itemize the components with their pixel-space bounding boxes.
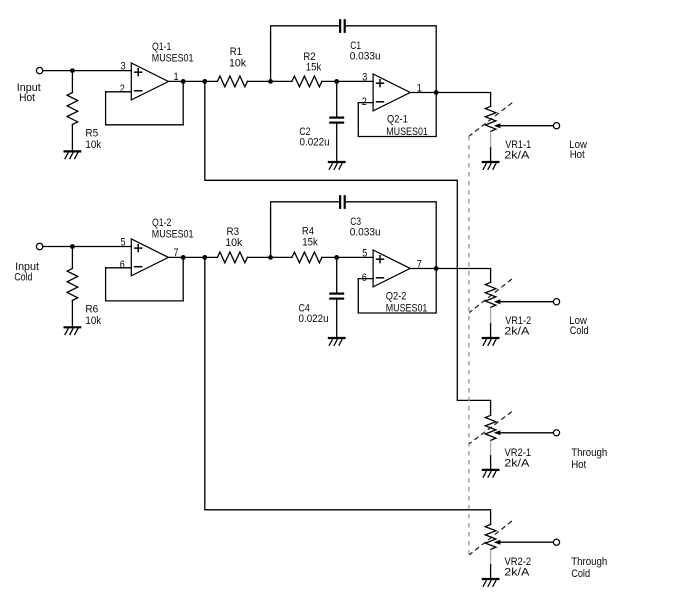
wire Q1-1 pin2 xyxy=(106,91,132,93)
wire C1 branch up-left xyxy=(271,26,340,82)
svg-text:2k/A: 2k/A xyxy=(504,567,530,579)
op-amp Q2-2 MUSES01 xyxy=(373,250,427,314)
ground (VR2-1) xyxy=(482,470,500,477)
potentiometer VR2-2 2k/A xyxy=(485,524,531,578)
svg-text:MUSES01: MUSES01 xyxy=(152,53,194,65)
pin 2 label Q1-1 xyxy=(120,83,125,95)
gang dash diagonal VR2-1 xyxy=(469,412,512,444)
node: through-cold tap xyxy=(202,255,207,260)
wire C3 branch up-left xyxy=(271,202,340,258)
wire Q2-1 pin2 xyxy=(358,102,373,104)
svg-text:R5: R5 xyxy=(85,128,98,140)
svg-text:2: 2 xyxy=(120,83,125,95)
node: R1-R2 junction (C1 tap) xyxy=(268,79,273,84)
resistor R6 10k xyxy=(67,268,102,327)
svg-text:3: 3 xyxy=(362,71,367,83)
svg-text:10k: 10k xyxy=(225,237,243,249)
wire C2 branch down xyxy=(336,81,338,116)
node: Q2-1 output xyxy=(434,90,439,95)
svg-text:R6: R6 xyxy=(85,304,98,316)
capacitor C4 0.022u xyxy=(299,294,345,326)
wire Q2-2 pin6 xyxy=(358,278,373,280)
wire to VR1-2 top xyxy=(490,269,492,283)
svg-text:Hot: Hot xyxy=(571,459,586,471)
svg-text:Q1-1: Q1-1 xyxy=(152,41,171,53)
wire Q2-1 output xyxy=(411,92,491,94)
svg-text:10k: 10k xyxy=(85,315,101,327)
pin 1 label Q2-1 xyxy=(417,83,422,95)
svg-text:Cold: Cold xyxy=(14,271,32,283)
gang dash trunk (vertical) xyxy=(468,136,470,555)
svg-text:2k/A: 2k/A xyxy=(504,150,530,162)
wire junction to R6 xyxy=(71,247,73,269)
pin 2 label Q2-1 xyxy=(362,96,367,108)
VR1-1 lower lead (gray) xyxy=(490,131,492,147)
wire Q1-2 output xyxy=(168,256,217,258)
VR2-2 wiper arrow and terminal (Through Cold) xyxy=(494,539,608,580)
op-amp Q1-1 MUSES01 xyxy=(131,41,193,100)
svg-text:Cold: Cold xyxy=(570,325,589,337)
wire input-cold to Q1-2 pin5 xyxy=(43,246,132,248)
pin 5 label Q2-2 xyxy=(362,247,367,259)
resistor R4 15k xyxy=(292,226,322,263)
wire Q1-1 feedback loop xyxy=(106,81,184,124)
gang dash diagonal VR2-2 xyxy=(469,521,512,555)
wire C2 to ground xyxy=(336,124,338,162)
node: through-hot tap xyxy=(202,79,207,84)
node: R3-R4 junction (C3 tap) xyxy=(268,255,273,260)
node: input hot junction xyxy=(70,68,75,73)
wire Q1-1 output xyxy=(168,80,217,82)
wire R4 to Q2-2 pin5 xyxy=(322,256,373,258)
wire R5 to ground xyxy=(71,125,73,152)
ground (C4) xyxy=(328,338,346,345)
gang dash diagonal VR1-1 xyxy=(469,103,512,136)
svg-text:6: 6 xyxy=(120,259,125,271)
ground (R5) xyxy=(64,151,82,158)
VR2-1 lower lead (gray) xyxy=(490,440,492,455)
capacitor C2 0.022u xyxy=(299,118,344,149)
node: Q1-1 output xyxy=(181,79,186,84)
pin 7 label Q1-2 xyxy=(174,247,179,259)
svg-text:10k: 10k xyxy=(229,58,247,70)
wire VR2-2 to ground xyxy=(490,565,492,579)
capacitor C1 0.033u xyxy=(340,19,381,63)
potentiometer VR2-1 2k/A xyxy=(485,415,531,469)
wire Q2-1 feedback loop xyxy=(358,93,436,137)
svg-text:Q2-1: Q2-1 xyxy=(387,114,408,126)
VR2-2 lower lead (gray) xyxy=(490,550,492,565)
resistor R2 15k xyxy=(292,51,322,87)
VR2-1 wiper arrow and terminal (Through Hot) xyxy=(494,430,608,471)
VR1-2 lower lead (gray) xyxy=(490,307,492,323)
wire R2 to Q2-1 pin3 xyxy=(322,80,373,82)
wire Q1-2 feedback loop xyxy=(106,257,184,301)
wire C4 branch down xyxy=(336,257,338,292)
ground (VR1-1) xyxy=(482,162,500,169)
potentiometer VR1-1 2k/A xyxy=(485,106,531,161)
wire C1 to output node xyxy=(346,26,437,93)
wire Q2-2 feedback loop xyxy=(358,269,436,314)
gang dash diagonal VR1-2 xyxy=(469,279,512,313)
svg-text:Through: Through xyxy=(571,447,607,459)
svg-text:R1: R1 xyxy=(230,46,242,58)
node: R2-C2 junction xyxy=(334,79,339,84)
ground (VR2-2) xyxy=(482,579,500,586)
resistor R5 10k xyxy=(67,93,102,152)
svg-text:2k/A: 2k/A xyxy=(504,325,530,337)
svg-text:MUSES01: MUSES01 xyxy=(152,229,194,241)
node: Q2-2 output xyxy=(434,266,439,271)
ground (VR1-2) xyxy=(482,338,500,345)
wire VR1-1 to ground xyxy=(490,148,492,162)
node: input cold junction xyxy=(70,244,75,249)
pin 3 label Q2-1 xyxy=(362,71,367,83)
svg-text:Hot: Hot xyxy=(19,92,35,104)
wire R1 to R2 xyxy=(247,80,292,82)
op-amp Q2-1 MUSES01 xyxy=(373,74,428,138)
svg-text:10k: 10k xyxy=(85,139,101,151)
wire R3 to R4 xyxy=(247,256,292,258)
wire input-hot to Q1-1 pin3 xyxy=(43,70,132,72)
node: R4-C4 junction xyxy=(334,255,339,260)
wire R6 to ground xyxy=(71,300,73,327)
wire Q2-2 output xyxy=(411,268,491,270)
svg-text:3: 3 xyxy=(121,61,126,73)
svg-text:5: 5 xyxy=(362,247,367,259)
capacitor C3 0.033u xyxy=(340,195,381,239)
VR1-2 wiper arrow and terminal (Low Cold) xyxy=(494,299,589,338)
svg-text:Q2-2: Q2-2 xyxy=(386,291,407,303)
pin 1 label Q1-1 xyxy=(174,71,179,83)
wire through-hot bus xyxy=(205,81,491,415)
svg-text:5: 5 xyxy=(121,236,126,248)
pin 5 label Q1-2 xyxy=(121,236,126,248)
wire C3 to output node xyxy=(346,202,437,269)
svg-text:15k: 15k xyxy=(306,62,322,74)
potentiometer VR1-2 2k/A xyxy=(485,282,531,337)
op-amp Q1-2 MUSES01 xyxy=(131,217,193,276)
wire junction to R5 xyxy=(71,71,73,93)
VR1-1 wiper arrow and terminal (Low Hot) xyxy=(494,123,587,162)
input terminal (Input Hot) xyxy=(17,67,43,104)
resistor R3 10k xyxy=(217,226,247,263)
svg-text:15k: 15k xyxy=(302,236,318,248)
resistor R1 10k xyxy=(217,46,247,87)
pin 7 label Q2-2 xyxy=(417,259,422,271)
wire through-cold bus xyxy=(205,257,491,524)
input terminal (Input Cold) xyxy=(14,243,43,283)
wire Q1-2 pin6 xyxy=(106,267,132,269)
node: Q1-2 output xyxy=(181,255,186,260)
svg-text:0.022u: 0.022u xyxy=(300,137,330,149)
wire VR1-2 to ground xyxy=(490,324,492,338)
svg-text:Cold: Cold xyxy=(571,568,590,580)
svg-text:0.022u: 0.022u xyxy=(299,313,329,325)
svg-text:Through: Through xyxy=(571,556,607,568)
pin 6 label Q1-2 xyxy=(120,259,125,271)
svg-text:2k/A: 2k/A xyxy=(504,457,530,469)
ground (R6) xyxy=(64,327,82,334)
svg-text:6: 6 xyxy=(362,272,367,284)
pin 6 label Q2-2 xyxy=(362,272,367,284)
wire C4 to ground xyxy=(336,300,338,338)
svg-text:Q1-2: Q1-2 xyxy=(152,217,171,229)
svg-text:Hot: Hot xyxy=(570,149,585,161)
svg-text:0.033u: 0.033u xyxy=(350,227,381,239)
wire VR2-1 to ground xyxy=(490,456,492,470)
svg-text:0.033u: 0.033u xyxy=(350,51,381,63)
wire to VR1-1 top xyxy=(490,93,492,107)
pin 3 label Q1-1 xyxy=(121,61,126,73)
ground (C2) xyxy=(328,162,346,169)
